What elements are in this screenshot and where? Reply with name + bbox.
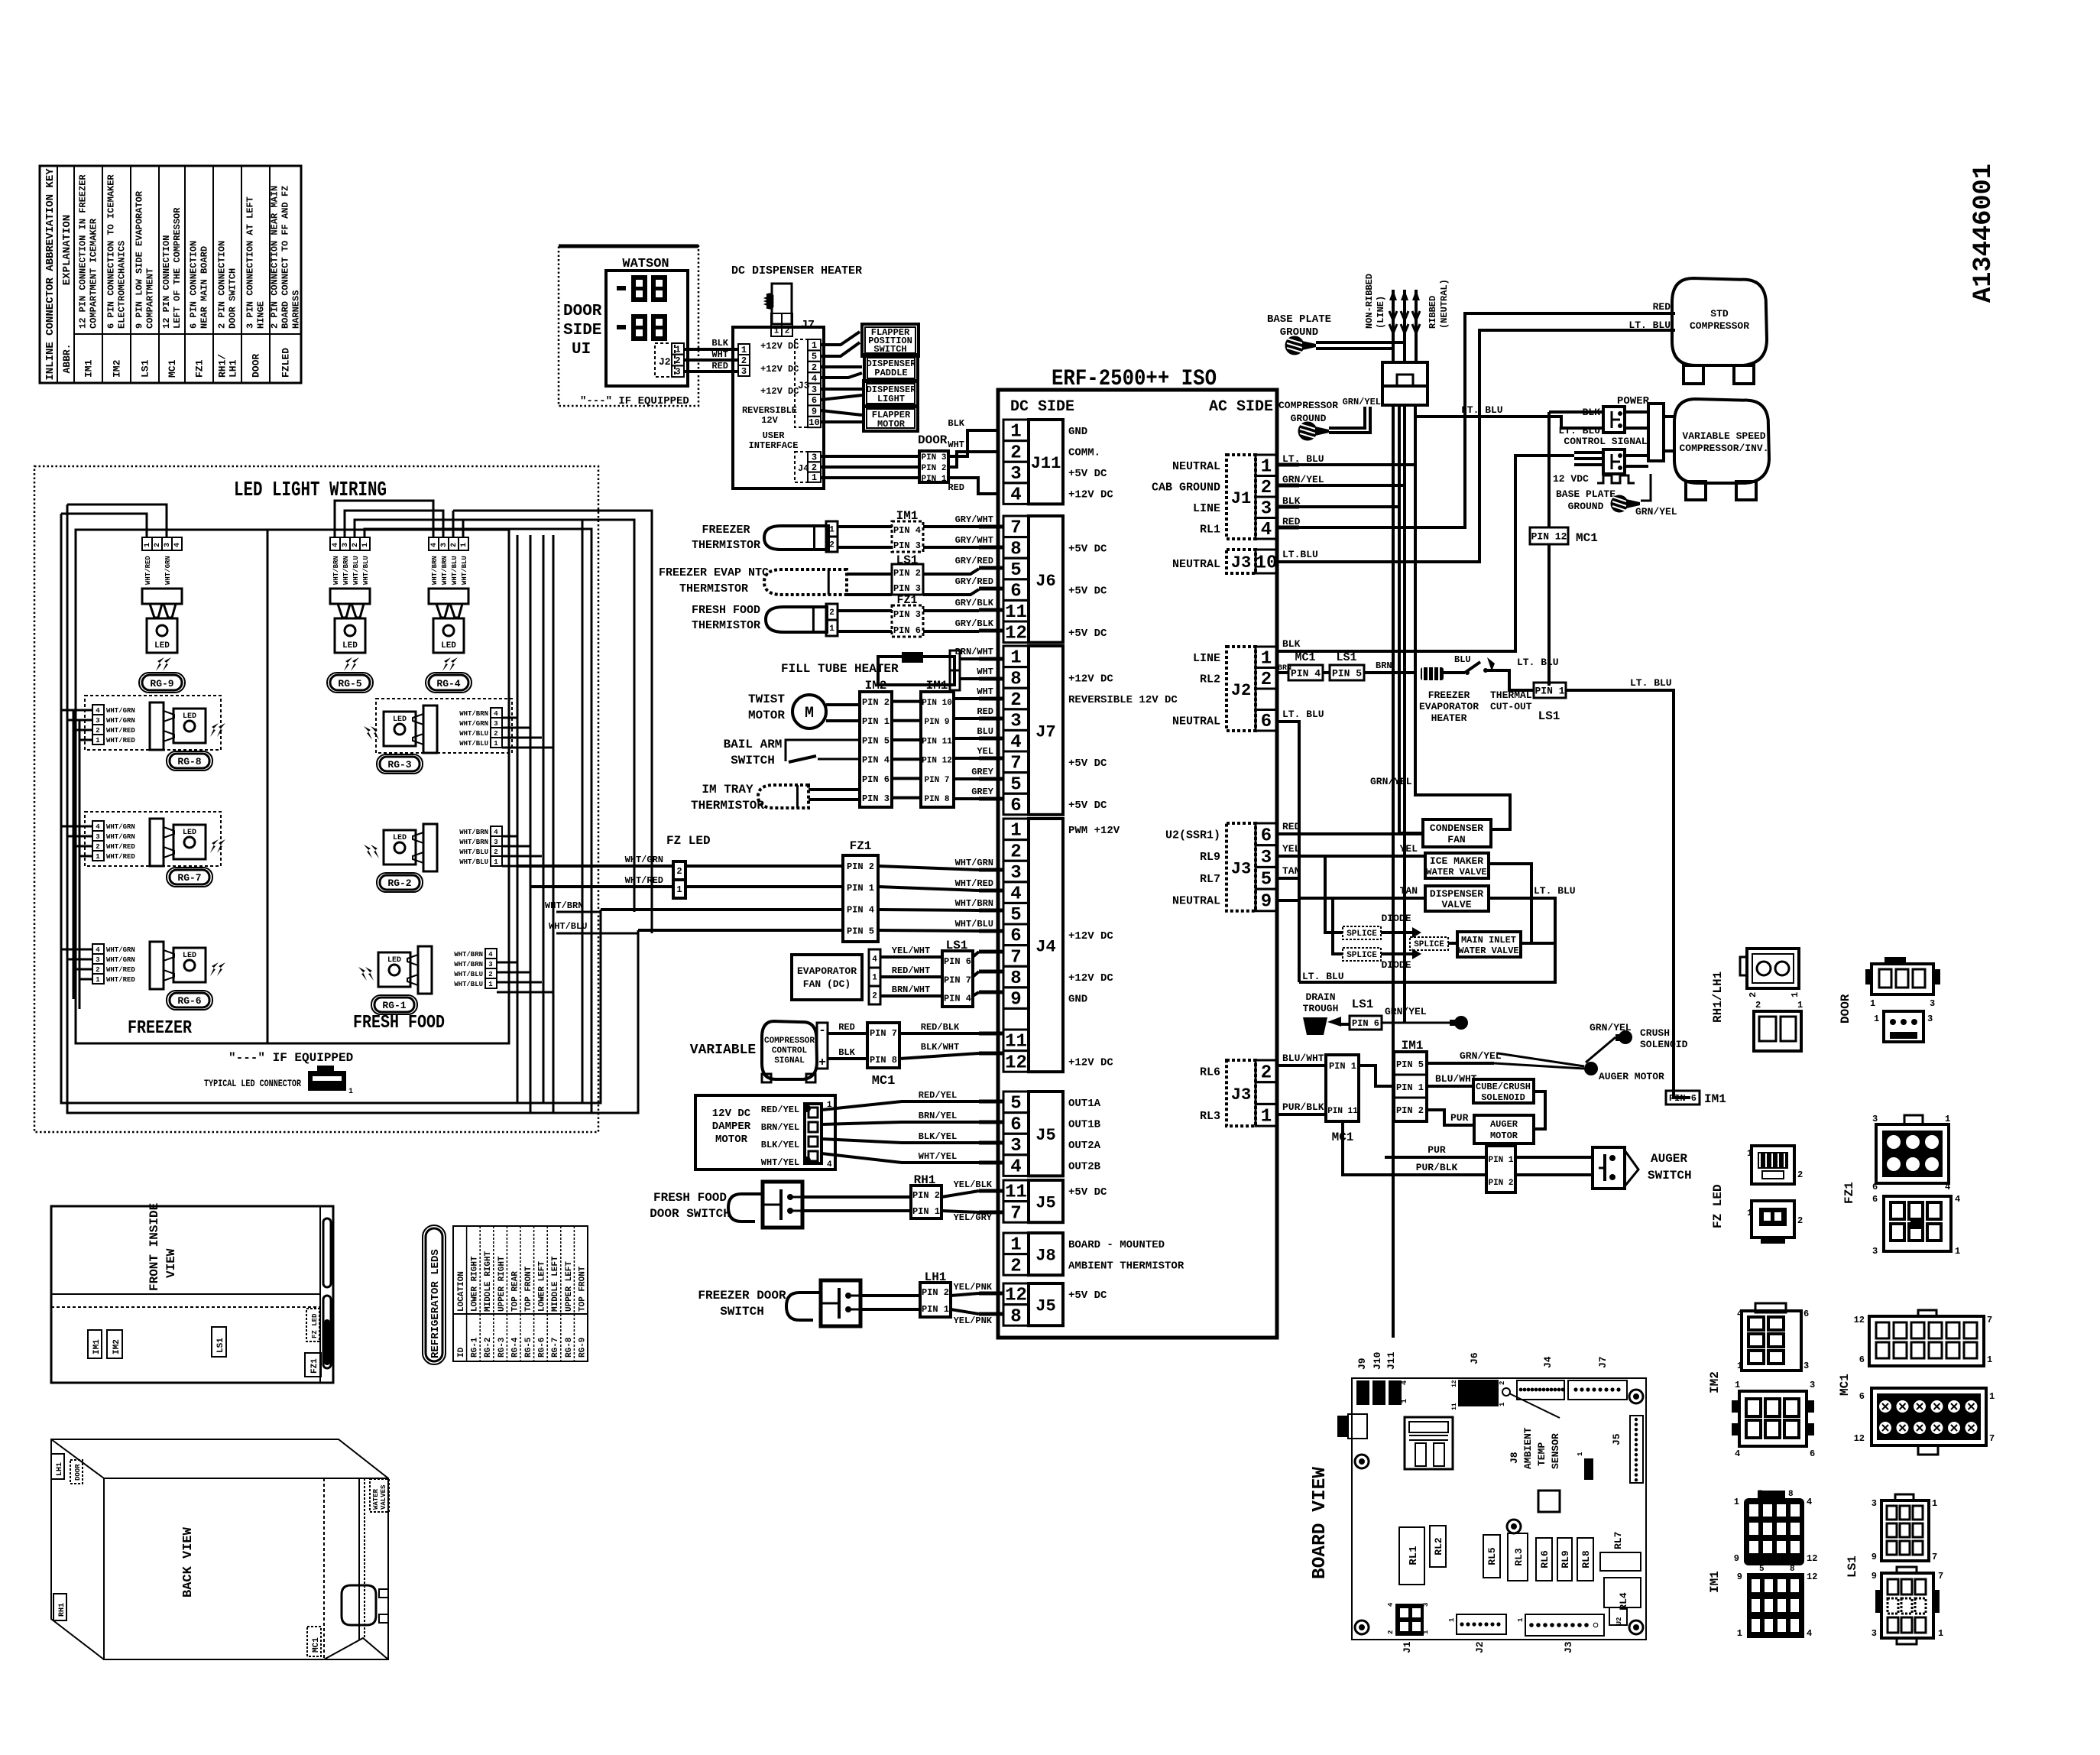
svg-text:CONDENSER: CONDENSER xyxy=(1430,822,1483,834)
wire BLK to power xyxy=(1549,410,1603,414)
svg-text:FRESH FOOD: FRESH FOOD xyxy=(353,1013,445,1033)
svg-text:EVAPORATOR: EVAPORATOR xyxy=(797,965,857,977)
connector view IM2 socket xyxy=(1739,1391,1807,1446)
svg-text:WHT/BRN: WHT/BRN xyxy=(441,556,449,585)
svg-text:12 PIN CONNECTION IN FREEZER: 12 PIN CONNECTION IN FREEZER xyxy=(78,174,89,329)
svg-text:PIN 6: PIN 6 xyxy=(1669,1093,1697,1104)
svg-text:TWIST: TWIST xyxy=(748,693,785,706)
board relay RL6 xyxy=(1536,1538,1552,1581)
svg-text:12: 12 xyxy=(1005,1053,1027,1073)
connector view DOOR socket xyxy=(1884,1011,1923,1042)
RG-5 RG-4 top wires xyxy=(335,501,433,537)
svg-text:PIN 5: PIN 5 xyxy=(1396,1059,1424,1070)
svg-text:LED: LED xyxy=(183,952,196,960)
wire cube crush to LT BLU bus xyxy=(1534,1092,1545,1116)
svg-text:FILL TUBE HEATER: FILL TUBE HEATER xyxy=(781,662,899,676)
svg-text:LED: LED xyxy=(154,641,170,650)
wires IM2 to IM1 connector columns xyxy=(892,700,921,703)
svg-text:PIN 1: PIN 1 xyxy=(862,716,890,727)
svg-text:RG-8: RG-8 xyxy=(177,756,201,767)
svg-text:FRESH FOOD: FRESH FOOD xyxy=(653,1191,727,1205)
svg-text:2: 2 xyxy=(488,971,492,978)
svg-text:PIN 2: PIN 2 xyxy=(1488,1179,1513,1188)
freezer evaporator heater coil xyxy=(1421,667,1444,680)
svg-text:MOTOR: MOTOR xyxy=(715,1134,748,1146)
svg-text:WHT/BLU: WHT/BLU xyxy=(352,556,360,585)
wire RED J1-4 marker xyxy=(1299,526,1365,529)
svg-text:GRY/WHT: GRY/WHT xyxy=(955,535,993,546)
svg-text:2: 2 xyxy=(96,843,99,851)
svg-text:LS1: LS1 xyxy=(1538,709,1560,723)
svg-text:WHT/BRN: WHT/BRN xyxy=(459,839,488,846)
svg-text:4: 4 xyxy=(812,373,817,384)
svg-text:RIBBED: RIBBED xyxy=(1428,296,1438,329)
svg-text:RG-6: RG-6 xyxy=(177,995,201,1007)
svg-text:LED: LED xyxy=(387,956,401,965)
svg-text:RG-9: RG-9 xyxy=(150,678,173,689)
svg-text:OUT2B: OUT2B xyxy=(1068,1161,1101,1173)
svg-text:SPLICE: SPLICE xyxy=(1347,929,1377,939)
svg-text:REFRIGERATOR LEDS: REFRIGERATOR LEDS xyxy=(429,1249,442,1358)
svg-text:DIODE: DIODE xyxy=(1381,959,1411,971)
svg-text:7: 7 xyxy=(1989,1433,1995,1444)
main board photo outline xyxy=(1352,1378,1646,1640)
wires evap thermistor to J6 xyxy=(847,573,892,576)
svg-text:1: 1 xyxy=(774,327,779,336)
svg-text:TOP FRONT: TOP FRONT xyxy=(524,1266,533,1312)
svg-text:RED/YEL: RED/YEL xyxy=(919,1090,957,1101)
svg-text:GRN/YEL: GRN/YEL xyxy=(1385,1006,1427,1017)
svg-text:WHT/BLU: WHT/BLU xyxy=(459,848,488,856)
svg-text:2: 2 xyxy=(450,543,459,547)
svg-text:+: + xyxy=(818,1056,826,1069)
svg-text:AMBIENT: AMBIENT xyxy=(1522,1427,1534,1469)
board ic square xyxy=(1538,1491,1560,1512)
svg-text:RL6: RL6 xyxy=(1200,1066,1220,1079)
svg-text:FREEZER EVAP NTC: FREEZER EVAP NTC xyxy=(659,566,769,579)
wires FF thermistor to J6 xyxy=(838,609,892,612)
svg-text:8: 8 xyxy=(1010,1306,1021,1327)
svg-text:HINGE: HINGE xyxy=(256,301,267,329)
connector J5 outputs xyxy=(1003,1092,1029,1113)
svg-text:3: 3 xyxy=(494,720,497,728)
svg-text:5: 5 xyxy=(1758,1490,1763,1499)
svg-text:WHT/RED: WHT/RED xyxy=(955,878,993,889)
svg-text:2: 2 xyxy=(1261,1062,1272,1083)
svg-text:4: 4 xyxy=(1955,1194,1960,1205)
svg-text:ELECTROMECHANICS: ELECTROMECHANICS xyxy=(117,241,128,329)
svg-text:PIN 5: PIN 5 xyxy=(1332,667,1362,679)
auger motor terminal xyxy=(1584,1062,1598,1075)
svg-text:1: 1 xyxy=(829,624,834,634)
svg-text:GRY/WHT: GRY/WHT xyxy=(955,514,993,525)
svg-text:1: 1 xyxy=(676,884,682,895)
svg-text:PIN 7: PIN 7 xyxy=(944,975,971,985)
svg-text:GROUND: GROUND xyxy=(1280,326,1318,339)
svg-text:5: 5 xyxy=(1010,560,1021,581)
svg-text:MOTOR: MOTOR xyxy=(1490,1131,1518,1141)
svg-text:AMBIENT THERMISTOR: AMBIENT THERMISTOR xyxy=(1068,1260,1184,1272)
svg-text:4: 4 xyxy=(1737,1309,1742,1319)
svg-text:REVERSIBLE 12V DC: REVERSIBLE 12V DC xyxy=(1068,694,1178,706)
wire MC1 pin1 to IM1 xyxy=(1359,1066,1394,1086)
svg-text:VARIABLE: VARIABLE xyxy=(690,1043,757,1058)
svg-text:1: 1 xyxy=(1945,1114,1950,1124)
svg-text:1: 1 xyxy=(1010,648,1021,669)
svg-text:6 PIN CONNECTION TO ICEMAKER: 6 PIN CONNECTION TO ICEMAKER xyxy=(106,174,117,329)
svg-text:USER: USER xyxy=(763,430,786,441)
wire LT BLU J1-1 to bundle xyxy=(1299,463,1415,466)
svg-text:COMPRESSOR: COMPRESSOR xyxy=(1690,320,1749,332)
svg-text:2: 2 xyxy=(1010,443,1021,463)
svg-text:THERMAL: THERMAL xyxy=(1490,689,1532,701)
svg-text:2: 2 xyxy=(494,848,497,856)
svg-text:TOP REAR: TOP REAR xyxy=(510,1271,520,1312)
svg-text:LT. BLU: LT. BLU xyxy=(1461,404,1503,416)
svg-text:1: 1 xyxy=(1010,1235,1021,1256)
svg-text:1: 1 xyxy=(829,526,834,535)
svg-text:9: 9 xyxy=(1734,1553,1739,1564)
svg-text:LT. BLU: LT. BLU xyxy=(1534,885,1576,897)
svg-text:RG-9: RG-9 xyxy=(578,1338,587,1358)
svg-text:THERMISTOR: THERMISTOR xyxy=(691,799,764,813)
connector J5 door switch FZ xyxy=(1003,1283,1029,1305)
svg-text:MC1: MC1 xyxy=(312,1637,321,1653)
svg-text:1: 1 xyxy=(1735,1380,1740,1390)
svg-text:11: 11 xyxy=(1005,602,1027,623)
wires base plate ground to line bundle xyxy=(1316,341,1405,344)
svg-text:LINE: LINE xyxy=(1193,652,1220,665)
svg-text:2: 2 xyxy=(872,992,877,1001)
dispenser valve return to LT BLU xyxy=(1299,898,1555,982)
neutral loop J3 pin9 xyxy=(1277,899,1299,902)
svg-text:1: 1 xyxy=(1737,1361,1742,1371)
svg-text:PIN 1: PIN 1 xyxy=(922,1304,949,1315)
svg-text:RL1: RL1 xyxy=(1408,1546,1420,1565)
svg-text:BLK: BLK xyxy=(948,418,964,429)
connector view MC1 plug xyxy=(1869,1316,1984,1366)
svg-text:HARNESS: HARNESS xyxy=(291,290,302,329)
svg-text:RG-4: RG-4 xyxy=(436,678,460,689)
svg-text:FREEZER: FREEZER xyxy=(1428,689,1470,701)
svg-text:LOCATION: LOCATION xyxy=(457,1271,466,1312)
svg-text:RL9: RL9 xyxy=(1200,851,1220,864)
svg-text:9: 9 xyxy=(1872,1552,1877,1562)
svg-text:12: 12 xyxy=(1005,1286,1027,1306)
svg-text:RED: RED xyxy=(1282,821,1301,832)
svg-text:2: 2 xyxy=(154,543,162,547)
svg-text:8: 8 xyxy=(1790,1565,1795,1574)
svg-text:PIN 4: PIN 4 xyxy=(862,755,890,766)
svg-text:J5: J5 xyxy=(1611,1433,1622,1445)
svg-text:+5V DC: +5V DC xyxy=(1068,1186,1107,1199)
line cord wires with arrows xyxy=(1392,290,1395,362)
svg-text:FZ1: FZ1 xyxy=(310,1358,319,1374)
svg-text:RL3: RL3 xyxy=(1200,1110,1220,1123)
svg-text:STD: STD xyxy=(1710,308,1729,320)
svg-text:BLK: BLK xyxy=(838,1047,855,1058)
connector J3-10 AC xyxy=(1227,550,1256,573)
svg-text:SIGNAL: SIGNAL xyxy=(774,1056,805,1066)
svg-text:2: 2 xyxy=(676,866,682,877)
svg-text:GRY/RED: GRY/RED xyxy=(955,556,993,566)
svg-text:8: 8 xyxy=(1788,1490,1794,1499)
svg-text:4: 4 xyxy=(332,543,340,547)
svg-text:WHT/GRN: WHT/GRN xyxy=(106,833,135,841)
wires freezer thermistor to J6 xyxy=(838,525,892,528)
wire RED DOOR to J11 pin4 xyxy=(948,478,998,494)
board relay RL8 xyxy=(1577,1538,1593,1581)
svg-text:PIN 2: PIN 2 xyxy=(912,1190,940,1201)
svg-text:BOARD - MOUNTED: BOARD - MOUNTED xyxy=(1068,1239,1165,1251)
svg-text:2: 2 xyxy=(494,730,497,738)
svg-text:NON-RIBBED: NON-RIBBED xyxy=(1364,274,1375,329)
svg-text:WHT: WHT xyxy=(977,667,993,677)
dispenser valve xyxy=(1425,886,1489,911)
svg-text:LS1: LS1 xyxy=(1352,998,1374,1011)
PIN 12 MC1 inline xyxy=(1530,527,1568,544)
svg-text:PIN 2: PIN 2 xyxy=(847,861,874,872)
svg-text:2: 2 xyxy=(812,362,817,373)
svg-text:VARIABLE SPEED: VARIABLE SPEED xyxy=(1682,430,1765,442)
fresh food right bus verticals xyxy=(543,535,545,1103)
svg-text:IM1: IM1 xyxy=(1708,1571,1722,1593)
svg-text:2: 2 xyxy=(1797,1215,1803,1226)
svg-text:DOOR: DOOR xyxy=(251,354,262,378)
svg-text:LH1: LH1 xyxy=(56,1462,64,1476)
svg-text:SWITCH: SWITCH xyxy=(731,754,775,767)
svg-text:GRY/BLK: GRY/BLK xyxy=(955,618,994,629)
svg-text:HEATER: HEATER xyxy=(1431,712,1467,724)
svg-text:WHT/BRN: WHT/BRN xyxy=(431,556,439,585)
RH1 location xyxy=(53,1594,66,1620)
svg-text:RED: RED xyxy=(711,361,728,371)
svg-text:THERMISTOR: THERMISTOR xyxy=(692,619,760,632)
svg-text:PIN 12: PIN 12 xyxy=(1531,530,1567,542)
variable speed compressor xyxy=(1674,399,1769,483)
svg-text:WHT/RED: WHT/RED xyxy=(625,875,663,886)
wires twist motor to IM2 xyxy=(826,703,860,706)
svg-text:WHT/GRN: WHT/GRN xyxy=(955,858,993,868)
svg-text:WATER VALVE: WATER VALVE xyxy=(1426,867,1486,877)
svg-text:GRN/YEL: GRN/YEL xyxy=(1460,1050,1502,1062)
svg-text:12V DC: 12V DC xyxy=(712,1108,751,1120)
board edge connector xyxy=(1337,1416,1348,1437)
connector J7 main xyxy=(1003,646,1029,667)
svg-text:+12V DC: +12V DC xyxy=(1068,930,1113,942)
12V DC damper motor xyxy=(695,1095,835,1169)
LED wiring bus left xyxy=(61,514,601,1103)
svg-text:3: 3 xyxy=(1261,848,1272,868)
wire GRN/YEL bundle to drain trough xyxy=(1403,405,1406,1023)
wires damper motor to J5 xyxy=(822,1101,979,1110)
svg-text:12 PIN CONNECTION: 12 PIN CONNECTION xyxy=(161,235,172,329)
svg-text:4: 4 xyxy=(1010,1157,1021,1178)
svg-text:1: 1 xyxy=(460,543,468,547)
wire MC1 pin12 vertical xyxy=(1547,544,1551,686)
splice 3 xyxy=(1410,937,1448,950)
svg-text:WHT/BLU: WHT/BLU xyxy=(461,556,468,585)
svg-text:MC1: MC1 xyxy=(1838,1374,1852,1396)
svg-text:1: 1 xyxy=(488,981,493,988)
svg-text:1: 1 xyxy=(361,543,370,547)
board relay RL1 xyxy=(1399,1527,1424,1585)
svg-text:RG-8: RG-8 xyxy=(565,1337,574,1358)
connector J8 ambient xyxy=(1003,1233,1029,1254)
svg-text:RL7: RL7 xyxy=(1612,1532,1624,1549)
svg-text:4: 4 xyxy=(173,543,182,547)
wire BLK DOOR to J11 pin1 xyxy=(948,430,998,456)
connector J2 AC xyxy=(1227,647,1256,731)
svg-text:LS1: LS1 xyxy=(1336,651,1356,664)
svg-text:2: 2 xyxy=(829,608,834,618)
LED RG-8 xyxy=(85,696,221,750)
svg-text:2: 2 xyxy=(96,727,99,735)
bus stubs RG-6 xyxy=(61,949,92,951)
connector J2 on display xyxy=(655,343,675,377)
svg-text:MIDDLE LEFT: MIDDLE LEFT xyxy=(551,1256,560,1312)
svg-text:PIN 1: PIN 1 xyxy=(1329,1061,1356,1072)
svg-text:YEL/PNK: YEL/PNK xyxy=(954,1282,993,1293)
svg-text:8: 8 xyxy=(1010,968,1021,989)
board relay RL9 xyxy=(1557,1538,1572,1581)
splice 2 xyxy=(1343,948,1381,961)
svg-text:J5: J5 xyxy=(1035,1297,1055,1316)
svg-text:3: 3 xyxy=(1010,712,1021,732)
svg-text:PIN 6: PIN 6 xyxy=(944,956,971,967)
svg-text:DISPENSER: DISPENSER xyxy=(1430,888,1483,900)
svg-text:FREEZER: FREEZER xyxy=(128,1018,192,1039)
svg-text:PWM +12V: PWM +12V xyxy=(1068,825,1120,837)
inline connector abbreviation key table xyxy=(40,166,301,383)
terminal block xyxy=(1382,362,1428,405)
svg-text:RG-2: RG-2 xyxy=(484,1338,493,1358)
svg-text:2: 2 xyxy=(352,543,360,547)
svg-text:BRN: BRN xyxy=(1376,660,1392,671)
svg-text:SWITCH: SWITCH xyxy=(1648,1169,1692,1182)
svg-text:DC DISPENSER HEATER: DC DISPENSER HEATER xyxy=(731,264,862,277)
svg-text:J1: J1 xyxy=(1402,1641,1413,1653)
svg-text:WHT/GRN: WHT/GRN xyxy=(459,720,488,728)
svg-text:LT. BLU: LT. BLU xyxy=(1302,971,1344,982)
LS1 location box xyxy=(212,1327,226,1357)
svg-text:RL5: RL5 xyxy=(1486,1547,1498,1565)
svg-text:MAIN INLET: MAIN INLET xyxy=(1461,935,1516,946)
connector view MC1 socket xyxy=(1872,1388,1986,1445)
svg-text:WHT/GRN: WHT/GRN xyxy=(106,823,135,831)
svg-text:2: 2 xyxy=(96,966,99,974)
svg-text:PIN 3: PIN 3 xyxy=(893,583,921,594)
J1 wire stubs xyxy=(1277,463,1299,467)
svg-text:RG-7: RG-7 xyxy=(551,1338,560,1358)
wire GRN/YEL J1-2 to bundle xyxy=(1299,484,1405,487)
svg-text:GROUND: GROUND xyxy=(1568,501,1604,512)
door slot bottom xyxy=(323,1296,331,1368)
svg-text:6 PIN CONNECTION: 6 PIN CONNECTION xyxy=(189,241,199,329)
svg-text:CUT-OUT: CUT-OUT xyxy=(1490,701,1532,712)
svg-text:1: 1 xyxy=(1737,1628,1742,1639)
water valves location xyxy=(370,1479,389,1512)
svg-text:1: 1 xyxy=(1747,1208,1752,1218)
svg-text:FZ LED: FZ LED xyxy=(311,1313,319,1338)
svg-text:GND: GND xyxy=(1068,994,1087,1006)
compressor interface strip xyxy=(1648,404,1664,461)
RG-2 pin wires xyxy=(502,835,517,838)
svg-text:YEL: YEL xyxy=(977,746,993,757)
svg-text:NEUTRAL: NEUTRAL xyxy=(1172,558,1220,571)
svg-text:WHT/GRN: WHT/GRN xyxy=(106,956,135,964)
svg-text:4: 4 xyxy=(1807,1497,1812,1507)
svg-text:TEMP: TEMP xyxy=(1536,1442,1547,1466)
svg-text:4: 4 xyxy=(488,951,493,959)
svg-text:TROUGH: TROUGH xyxy=(1303,1003,1339,1014)
wires IM1 to J7 xyxy=(954,697,979,700)
svg-text:WHT/BRN: WHT/BRN xyxy=(459,710,488,718)
svg-text:6: 6 xyxy=(1010,1114,1021,1135)
ice maker valve return xyxy=(1489,864,1531,943)
connector J1 AC xyxy=(1227,455,1256,539)
svg-text:5: 5 xyxy=(1010,905,1021,926)
svg-text:PIN 3: PIN 3 xyxy=(893,609,921,620)
svg-text:4: 4 xyxy=(1261,520,1272,540)
svg-text:LS1: LS1 xyxy=(1846,1555,1859,1578)
auger switch pins xyxy=(1486,1146,1515,1192)
svg-text:PIN 11: PIN 11 xyxy=(1327,1107,1358,1116)
svg-text:FZ LED: FZ LED xyxy=(1711,1184,1725,1228)
wire IM1 pin2 PUR to auger motor xyxy=(1427,1110,1474,1125)
svg-text:11: 11 xyxy=(1005,1032,1027,1053)
svg-text:GRN/YEL: GRN/YEL xyxy=(1282,474,1324,485)
svg-text:PIN 5: PIN 5 xyxy=(862,735,890,746)
svg-text:PIN 8: PIN 8 xyxy=(924,795,949,804)
svg-text:SENSOR: SENSOR xyxy=(1550,1433,1561,1469)
svg-text:FZ1: FZ1 xyxy=(194,359,206,378)
back view compartment lines xyxy=(323,1478,325,1659)
svg-text:RL6: RL6 xyxy=(1539,1550,1551,1568)
svg-text:RG-7: RG-7 xyxy=(177,872,201,884)
connector view IM1 plug xyxy=(1744,1498,1804,1565)
svg-text:2: 2 xyxy=(675,355,680,366)
svg-text:9: 9 xyxy=(812,407,817,417)
thermal cut-out switch xyxy=(1465,662,1480,673)
svg-text:MC1: MC1 xyxy=(167,359,178,378)
svg-text:GRN/YEL: GRN/YEL xyxy=(1635,506,1677,517)
svg-text:PIN 12: PIN 12 xyxy=(922,757,952,766)
svg-text:1: 1 xyxy=(872,974,877,983)
LED RG-4 xyxy=(429,537,439,550)
svg-text:1: 1 xyxy=(1870,998,1875,1009)
svg-text:WHT/GRN: WHT/GRN xyxy=(164,556,172,585)
svg-text:12: 12 xyxy=(1807,1572,1817,1582)
svg-text:4: 4 xyxy=(430,543,439,547)
svg-text:BLK: BLK xyxy=(1282,495,1301,507)
svg-text:"---" IF EQUIPPED: "---" IF EQUIPPED xyxy=(228,1051,353,1065)
svg-text:7: 7 xyxy=(1010,518,1021,539)
dispenser light box xyxy=(864,381,918,407)
board U2 xyxy=(1609,1607,1627,1625)
svg-text:RG-4: RG-4 xyxy=(510,1337,520,1358)
svg-text:PIN 1: PIN 1 xyxy=(1488,1156,1513,1165)
svg-text:WATER: WATER xyxy=(372,1488,380,1510)
svg-text:FAN (DC): FAN (DC) xyxy=(803,978,851,990)
svg-text:1: 1 xyxy=(741,345,747,355)
svg-text:J9: J9 xyxy=(1356,1358,1368,1370)
svg-text:PIN 1: PIN 1 xyxy=(921,475,946,484)
svg-text:OUT1A: OUT1A xyxy=(1068,1098,1101,1110)
MC1 location xyxy=(307,1627,321,1656)
svg-text:WHT: WHT xyxy=(711,349,728,360)
svg-text:RED: RED xyxy=(1282,516,1301,527)
